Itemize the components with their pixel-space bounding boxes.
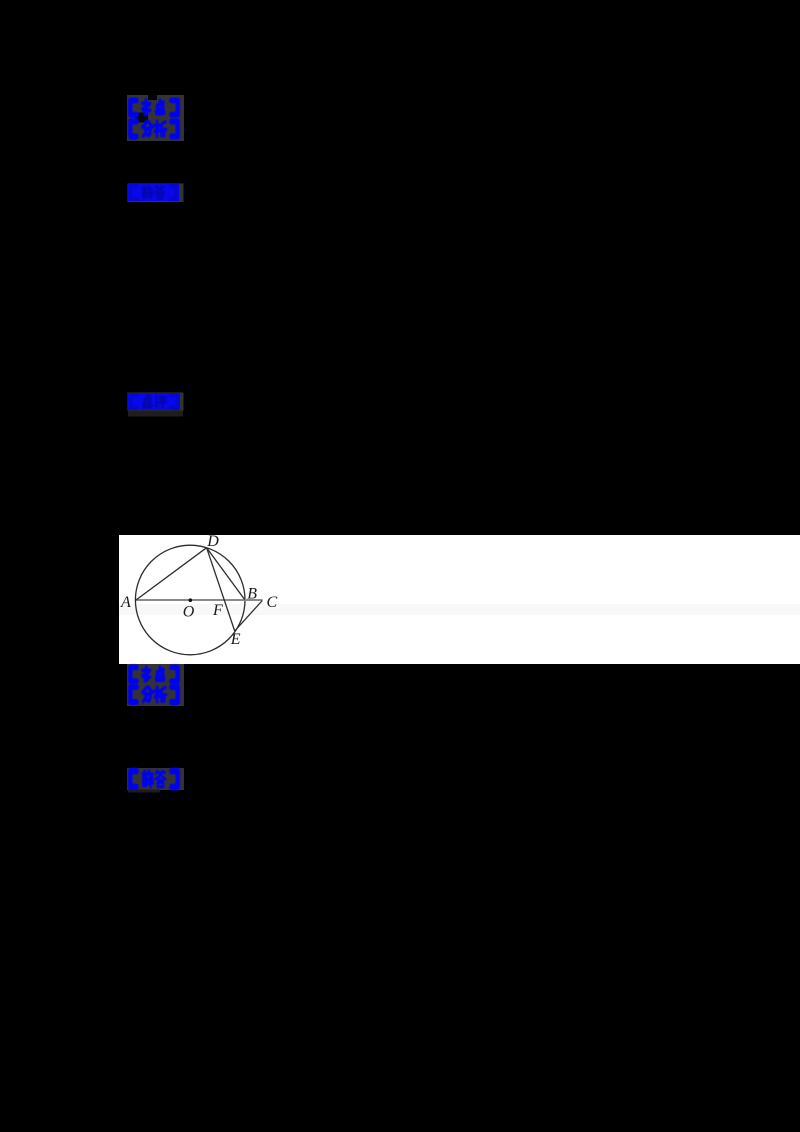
label 【分析】 problem1	[130, 121, 177, 136]
label 【点评】 problem1 selected blue block	[128, 393, 180, 410]
line ABC horizontal	[136, 599, 263, 601]
label 【解答】 problem1 selected blue block	[128, 184, 179, 201]
svg-text:E: E	[230, 631, 241, 648]
highlight halo box problem2 考点/分析	[127, 664, 184, 706]
svg-text:D: D	[206, 533, 219, 550]
faint residue streak under 解答	[128, 790, 160, 793]
svg-text:B: B	[247, 585, 257, 602]
highlight halo box problem2 解答	[127, 768, 184, 790]
svg-text:O: O	[183, 604, 195, 621]
svg-text:F: F	[212, 602, 223, 619]
line DB	[207, 548, 245, 600]
highlight halo box problem1 点评	[128, 393, 184, 412]
faint text stripe across panel	[119, 604, 800, 615]
circle O	[135, 545, 245, 655]
highlight halo box problem1 考点/分析	[127, 95, 184, 141]
faint residue streak under 点评	[128, 411, 183, 417]
line AD	[136, 548, 207, 600]
center dot O	[189, 598, 193, 602]
line DE through F	[207, 548, 235, 631]
svg-text:C: C	[267, 594, 278, 611]
white figure panel	[119, 535, 800, 664]
label 【分析】 problem2	[130, 687, 177, 702]
label 【解答】 problem2	[130, 771, 177, 787]
line EC	[235, 601, 263, 632]
dark square between lines	[135, 113, 148, 123]
label 【考点】 problem1	[130, 100, 177, 115]
highlight halo box problem1 解答	[128, 184, 184, 203]
svg-text:A: A	[120, 594, 131, 611]
dark notch top of halo	[148, 95, 157, 100]
label 【考点】 problem2	[130, 667, 177, 681]
